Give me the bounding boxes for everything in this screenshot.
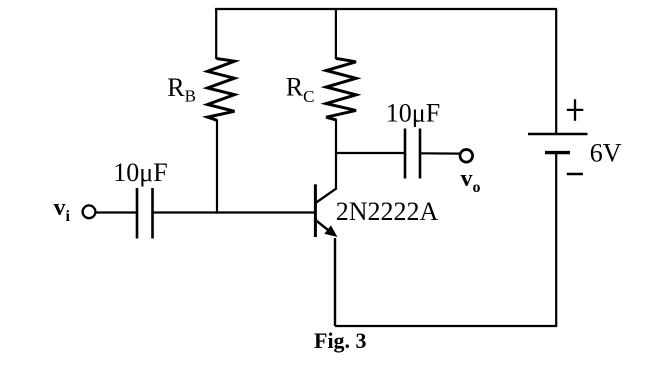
- wire C2 to vo terminal: [420, 152, 460, 155]
- wire top rail: [215, 8, 557, 10]
- resistor RC: [326, 58, 356, 120]
- wire RC top lead: [335, 8, 337, 59]
- svg-text:6V: 6V: [590, 138, 622, 167]
- resistor RB: [208, 59, 235, 121]
- svg-text:vo: vo: [461, 166, 481, 196]
- svg-text:10μF: 10μF: [386, 99, 440, 128]
- wire C1 to base: [153, 211, 316, 213]
- battery BT1 plate long: [528, 133, 588, 136]
- wire bottom rail: [335, 325, 557, 327]
- wire vi to C1: [96, 211, 137, 213]
- battery plus sign: [567, 99, 584, 121]
- battery minus sign: [567, 173, 583, 175]
- wire battery bottom lead: [555, 153, 557, 327]
- svg-text:Fig. 3: Fig. 3: [314, 328, 367, 353]
- wire battery top lead: [555, 9, 557, 134]
- wire RB bottom lead: [216, 120, 218, 214]
- svg-text:2N2222A: 2N2222A: [336, 197, 439, 226]
- wire emitter lead: [334, 238, 336, 326]
- svg-text:RC: RC: [286, 73, 315, 107]
- svg-text:vi: vi: [54, 195, 71, 225]
- wire RB top lead: [215, 8, 217, 59]
- svg-text:RB: RB: [167, 73, 196, 106]
- capacitor C1: [137, 188, 153, 239]
- svg-text:10μF: 10μF: [113, 158, 167, 187]
- wire collector to C2: [335, 152, 405, 154]
- battery BT1 plate short: [545, 151, 570, 154]
- terminal vi: [83, 205, 96, 218]
- transistor Q1 2N2222A: [315, 184, 336, 237]
- wire RC bottom lead to collector: [335, 120, 337, 190]
- terminal vo: [460, 150, 473, 163]
- capacitor C2: [405, 129, 420, 179]
